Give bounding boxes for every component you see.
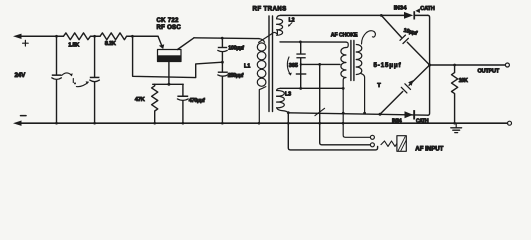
svg-text:CATH: CATH — [416, 119, 429, 125]
svg-text:AF INPUT: AF INPUT — [415, 145, 443, 152]
svg-text:100μμf: 100μμf — [228, 46, 244, 52]
svg-text:OUTPUT: OUTPUT — [478, 69, 500, 75]
svg-text:T: T — [377, 83, 381, 89]
svg-text:10K: 10K — [459, 78, 468, 84]
svg-text:8.2K: 8.2K — [105, 41, 117, 47]
svg-text:470μμf: 470μμf — [189, 98, 205, 104]
svg-text:L1: L1 — [244, 63, 250, 69]
svg-text:IN34: IN34 — [392, 119, 402, 125]
svg-text:1.5K: 1.5K — [68, 43, 80, 49]
svg-text:RF OSC: RF OSC — [157, 24, 182, 31]
svg-text:47K: 47K — [135, 97, 146, 103]
svg-text:L3: L3 — [285, 92, 291, 98]
svg-text:AF CHOKE: AF CHOKE — [331, 33, 358, 39]
svg-text:RF TRANS: RF TRANS — [253, 5, 287, 12]
svg-text:24V: 24V — [15, 72, 27, 79]
svg-text:CK 722: CK 722 — [157, 17, 180, 24]
svg-text:IN34: IN34 — [394, 5, 407, 11]
svg-text:250μμf: 250μμf — [228, 73, 244, 79]
svg-text:CATH: CATH — [420, 6, 434, 12]
svg-text:5-15μμf: 5-15μμf — [374, 62, 402, 69]
svg-text:365: 365 — [289, 63, 298, 69]
